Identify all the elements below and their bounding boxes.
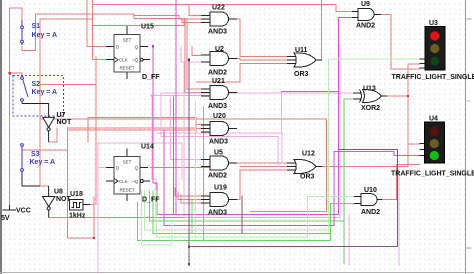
- svg-text:AND3: AND3: [208, 103, 227, 110]
- svg-text:TRAFFIC_LIGHT_SINGLE: TRAFFIC_LIGHT_SINGLE: [391, 171, 474, 178]
- svg-text:Q: Q: [135, 165, 139, 170]
- svg-text:SET: SET: [123, 38, 132, 43]
- svg-text:VCC: VCC: [16, 208, 31, 215]
- svg-text:U3: U3: [429, 20, 438, 27]
- svg-text:S1: S1: [32, 23, 41, 30]
- svg-text:U8: U8: [54, 189, 63, 196]
- svg-text:OR3: OR3: [294, 71, 309, 78]
- svg-text:TRAFFIC_LIGHT_SINGLE: TRAFFIC_LIGHT_SINGLE: [392, 74, 474, 81]
- svg-text:U19: U19: [214, 185, 227, 192]
- svg-text:AND2: AND2: [361, 209, 380, 216]
- svg-text:CLK: CLK: [119, 179, 128, 184]
- svg-text:U21: U21: [212, 78, 225, 85]
- svg-text:~Q: ~Q: [132, 58, 139, 63]
- svg-text:AND2: AND2: [356, 23, 375, 30]
- svg-text:U18: U18: [70, 191, 83, 198]
- svg-text:AND3: AND3: [208, 29, 227, 36]
- svg-text:U10: U10: [364, 187, 377, 194]
- svg-text:S3: S3: [31, 151, 40, 158]
- svg-text:OR3: OR3: [300, 174, 315, 181]
- svg-text:XOR2: XOR2: [361, 105, 380, 112]
- svg-text:U4: U4: [429, 116, 438, 123]
- svg-text:Key = A: Key = A: [32, 89, 58, 96]
- svg-text:AND2: AND2: [208, 70, 227, 77]
- svg-text:U5: U5: [214, 150, 223, 157]
- svg-text:Q: Q: [135, 44, 139, 49]
- svg-text:U12: U12: [302, 151, 315, 158]
- svg-text:D_FF: D_FF: [142, 197, 160, 204]
- svg-text:~Q: ~Q: [132, 179, 139, 184]
- svg-text:SET: SET: [123, 160, 132, 165]
- svg-text:RESET: RESET: [119, 66, 134, 71]
- svg-text:U7: U7: [57, 112, 66, 119]
- svg-text:U20: U20: [213, 113, 226, 120]
- svg-text:5V: 5V: [1, 215, 10, 222]
- svg-text:D_FF: D_FF: [142, 74, 160, 81]
- svg-text:AND2: AND2: [208, 173, 227, 180]
- svg-text:U11: U11: [295, 47, 308, 54]
- svg-text:U9: U9: [361, 1, 370, 8]
- svg-text:Key = A: Key = A: [32, 32, 58, 39]
- svg-text:RESET: RESET: [119, 188, 134, 193]
- svg-text:Key = A: Key = A: [30, 159, 56, 166]
- svg-text:AND3: AND3: [209, 139, 228, 146]
- svg-text:CLK: CLK: [119, 58, 128, 63]
- svg-text:U14: U14: [141, 144, 154, 151]
- svg-text:S2: S2: [32, 81, 41, 88]
- svg-text:1kHz: 1kHz: [69, 213, 86, 220]
- svg-text:NOT: NOT: [57, 119, 73, 126]
- svg-text:AND3: AND3: [208, 210, 227, 217]
- svg-text:U15: U15: [141, 24, 154, 31]
- svg-text:U2: U2: [215, 46, 224, 53]
- svg-text:U22: U22: [212, 5, 225, 12]
- svg-text:U13: U13: [363, 86, 376, 93]
